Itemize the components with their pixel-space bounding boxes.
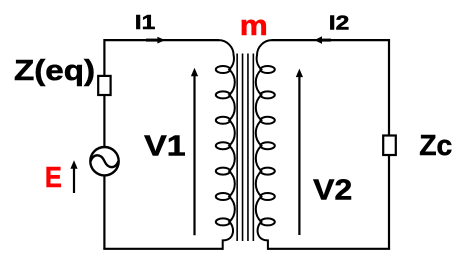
impedance box Z(eq) bbox=[98, 76, 110, 95]
svg-text:I2: I2 bbox=[329, 12, 350, 35]
svg-text:m: m bbox=[240, 10, 268, 42]
wire top-right horizontal bbox=[272, 39, 390, 41]
wire left vertical top (node A to Z(eq)) bbox=[103, 39, 105, 77]
polarity arrow for E bbox=[70, 160, 77, 193]
AC source E bbox=[90, 147, 118, 175]
wire left vertical middle (Z(eq) to source) bbox=[103, 95, 105, 148]
transformer secondary winding L2 bbox=[256, 40, 275, 250]
svg-text:Z(eq): Z(eq) bbox=[14, 55, 95, 87]
wire bottom-left horizontal bbox=[103, 248, 222, 250]
svg-text:I1: I1 bbox=[135, 11, 156, 34]
wire left vertical bottom (source to node B) bbox=[103, 175, 105, 249]
wire top-left horizontal bbox=[104, 39, 219, 41]
wire right vertical bottom (Zc to node D) bbox=[388, 155, 390, 249]
svg-text:E: E bbox=[45, 162, 62, 194]
svg-text:Zc: Zc bbox=[419, 130, 452, 162]
svg-text:V1: V1 bbox=[144, 130, 186, 162]
wire bottom-right horizontal bbox=[268, 248, 390, 250]
svg-text:V2: V2 bbox=[313, 175, 352, 207]
voltage arrow V1 bbox=[191, 68, 198, 236]
voltage arrow V2 bbox=[296, 69, 303, 235]
transformer primary winding L1 bbox=[216, 40, 235, 250]
current arrow I2 bbox=[314, 36, 331, 44]
transformer core bbox=[237, 54, 253, 242]
current arrow I1 bbox=[146, 37, 165, 44]
load impedance box Zc bbox=[383, 136, 396, 156]
wire right vertical top (to Zc) bbox=[388, 39, 390, 137]
